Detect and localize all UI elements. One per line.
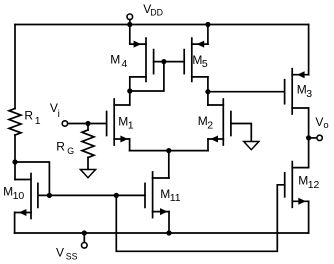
svg-text:5: 5: [202, 58, 208, 70]
svg-text:R: R: [56, 139, 65, 153]
svg-text:M: M: [198, 114, 208, 128]
svg-text:R: R: [24, 108, 33, 122]
svg-text:M: M: [297, 83, 307, 97]
svg-text:2: 2: [207, 119, 213, 131]
svg-text:1: 1: [128, 120, 134, 132]
svg-text:M: M: [110, 53, 120, 67]
svg-text:G: G: [67, 146, 74, 156]
svg-text:4: 4: [122, 58, 128, 70]
svg-text:3: 3: [306, 88, 312, 100]
svg-text:1: 1: [35, 115, 41, 127]
svg-text:SS: SS: [66, 252, 78, 262]
svg-text:10: 10: [13, 190, 25, 202]
svg-text:M: M: [192, 53, 202, 67]
svg-text:12: 12: [308, 179, 320, 191]
svg-text:11: 11: [170, 192, 181, 204]
svg-text:M: M: [298, 174, 308, 188]
svg-text:M: M: [3, 185, 13, 199]
svg-text:M: M: [160, 187, 170, 201]
svg-text:o: o: [323, 120, 328, 131]
svg-text:i: i: [58, 109, 60, 120]
svg-text:DD: DD: [150, 8, 163, 18]
svg-text:M: M: [118, 114, 128, 128]
svg-text:V: V: [56, 246, 64, 260]
svg-text:V: V: [315, 115, 323, 129]
